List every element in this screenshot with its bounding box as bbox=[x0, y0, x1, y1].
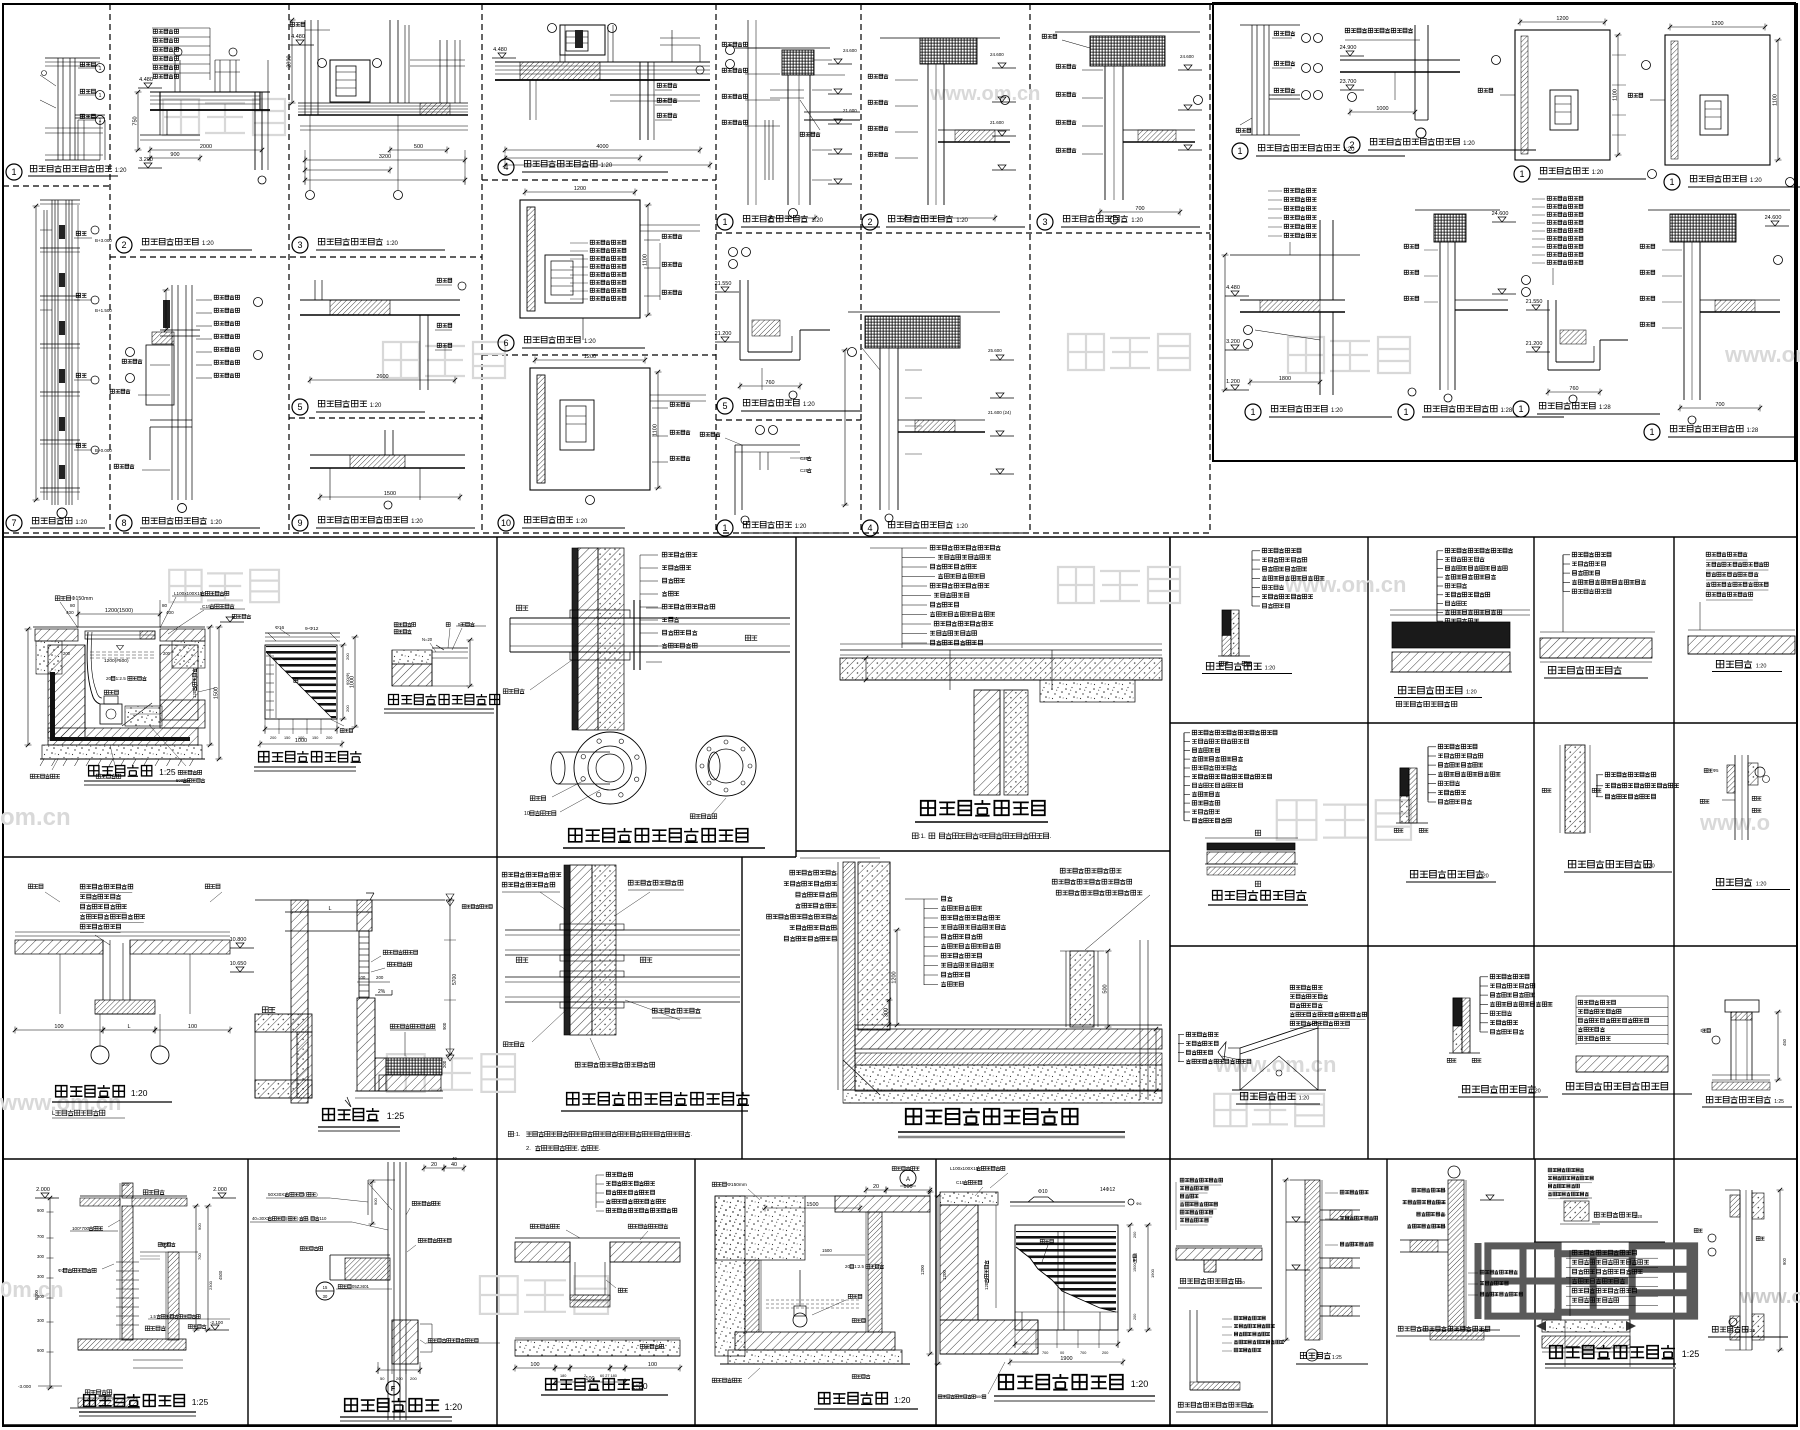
svg-text:4: 4 bbox=[867, 523, 872, 533]
svg-text:1800: 1800 bbox=[1279, 376, 1291, 382]
svg-text:1:20: 1:20 bbox=[1131, 218, 1143, 224]
svg-text:23.700: 23.700 bbox=[1340, 79, 1357, 85]
svg-text:1500(: 1500( bbox=[1133, 1262, 1137, 1272]
svg-text:24.600: 24.600 bbox=[1765, 215, 1782, 221]
svg-text:Φ150mm: Φ150mm bbox=[727, 1182, 747, 1188]
svg-text:1: 1 bbox=[99, 66, 102, 72]
svg-text:1: 1 bbox=[722, 523, 727, 533]
svg-text:40=30X3: 40=30X3 bbox=[252, 1216, 270, 1221]
svg-text:21.550: 21.550 bbox=[1526, 299, 1543, 305]
svg-text:1:20: 1:20 bbox=[1756, 882, 1767, 888]
svg-text:900: 900 bbox=[442, 1022, 447, 1030]
svg-text:50: 50 bbox=[380, 1376, 385, 1381]
svg-text:2600: 2600 bbox=[376, 374, 388, 380]
svg-text:24.600: 24.600 bbox=[990, 52, 1004, 57]
svg-text:1500: 1500 bbox=[384, 491, 396, 497]
svg-text:900: 900 bbox=[37, 1208, 45, 1213]
svg-text:120: 120 bbox=[984, 1282, 989, 1290]
svg-text:6: 6 bbox=[503, 338, 508, 348]
svg-text:www.om.cn: www.om.cn bbox=[929, 83, 1040, 105]
svg-text:1100: 1100 bbox=[1613, 89, 1619, 101]
svg-text:40: 40 bbox=[451, 1162, 457, 1168]
svg-text:3: 3 bbox=[1042, 217, 1047, 227]
svg-text:1200: 1200 bbox=[1556, 16, 1568, 22]
svg-text:1:20: 1:20 bbox=[115, 168, 127, 174]
svg-text:900: 900 bbox=[197, 1223, 202, 1230]
svg-text:1:20: 1:20 bbox=[811, 218, 823, 224]
svg-text:20: 20 bbox=[106, 676, 112, 681]
svg-text:1100: 1100 bbox=[653, 424, 659, 436]
svg-text:1:20: 1:20 bbox=[795, 524, 807, 530]
svg-text:1: 1 bbox=[1649, 427, 1654, 437]
svg-text:300: 300 bbox=[37, 1274, 45, 1279]
svg-text:2: 2 bbox=[867, 217, 872, 227]
svg-text:Φ16: Φ16 bbox=[275, 625, 284, 631]
svg-text:3200: 3200 bbox=[379, 154, 391, 160]
svg-text:1:20: 1:20 bbox=[445, 1402, 463, 1412]
svg-text:5000: 5000 bbox=[34, 1289, 39, 1300]
svg-text:B+1.500: B+1.500 bbox=[95, 308, 112, 313]
svg-text:1: 1 bbox=[1403, 407, 1408, 417]
svg-text:1:20: 1:20 bbox=[386, 241, 398, 247]
svg-text:10.800: 10.800 bbox=[230, 937, 247, 943]
svg-text:om.cn: om.cn bbox=[0, 804, 71, 831]
svg-text:1900: 1900 bbox=[1150, 1268, 1155, 1278]
svg-text:500: 500 bbox=[414, 144, 423, 150]
svg-text:80: 80 bbox=[162, 603, 168, 608]
svg-text:1100: 1100 bbox=[1773, 94, 1779, 106]
svg-text:A: A bbox=[906, 1177, 910, 1183]
svg-text:100*700: 100*700 bbox=[72, 1226, 90, 1231]
svg-text:1.200: 1.200 bbox=[1226, 379, 1240, 385]
svg-text:1: 1 bbox=[11, 167, 16, 177]
svg-text:30: 30 bbox=[323, 1294, 328, 1299]
svg-text:1500: 1500 bbox=[806, 1202, 818, 1208]
svg-text:3: 3 bbox=[297, 240, 302, 250]
svg-text:1:20: 1:20 bbox=[1331, 408, 1343, 414]
svg-text:2300: 2300 bbox=[208, 1280, 213, 1290]
svg-text:24.600: 24.600 bbox=[843, 48, 857, 53]
svg-text:1200: 1200 bbox=[584, 354, 596, 360]
svg-text:1500: 1500 bbox=[822, 1248, 832, 1253]
svg-text:N=20: N=20 bbox=[422, 637, 433, 642]
svg-text:1:20: 1:20 bbox=[1131, 1379, 1149, 1389]
svg-text:1:25: 1:25 bbox=[1746, 1328, 1756, 1334]
svg-text:8: 8 bbox=[121, 518, 126, 528]
svg-text:200: 200 bbox=[63, 651, 71, 656]
svg-text:1:20: 1:20 bbox=[601, 163, 613, 169]
svg-text:1000: 1000 bbox=[1376, 106, 1388, 112]
svg-text:1: 1 bbox=[722, 217, 727, 227]
svg-text:100: 100 bbox=[54, 1024, 63, 1030]
svg-text:1:20: 1:20 bbox=[1530, 1089, 1541, 1095]
svg-text:100: 100 bbox=[358, 975, 366, 980]
svg-text:1:20: 1:20 bbox=[370, 403, 382, 409]
svg-text:700: 700 bbox=[1080, 1351, 1086, 1355]
svg-text:1:20: 1:20 bbox=[75, 520, 87, 526]
svg-text:200: 200 bbox=[1102, 1351, 1108, 1355]
svg-text:100: 100 bbox=[648, 1362, 657, 1368]
svg-text:180: 180 bbox=[560, 1374, 566, 1378]
svg-text:2.: 2. bbox=[526, 1146, 531, 1152]
svg-text:1: 1 bbox=[1518, 404, 1523, 414]
svg-text:L: L bbox=[328, 906, 331, 912]
svg-text:C25: C25 bbox=[800, 468, 809, 473]
svg-text:4.480: 4.480 bbox=[291, 34, 305, 40]
svg-text:1:20: 1:20 bbox=[1246, 1404, 1255, 1409]
svg-text:21.600: 21.600 bbox=[990, 120, 1004, 125]
svg-text:700: 700 bbox=[197, 1253, 202, 1260]
svg-text:1:28: 1:28 bbox=[1747, 428, 1759, 434]
svg-text:700: 700 bbox=[1042, 1351, 1048, 1355]
svg-text:200: 200 bbox=[345, 705, 350, 712]
svg-text:150: 150 bbox=[284, 736, 290, 740]
svg-text:2%: 2% bbox=[378, 989, 386, 995]
svg-text:1200(1500): 1200(1500) bbox=[105, 608, 133, 614]
svg-text:500: 500 bbox=[1103, 984, 1109, 993]
svg-text:700: 700 bbox=[37, 1234, 45, 1239]
svg-text:1:20: 1:20 bbox=[1756, 664, 1767, 670]
svg-text:1:20: 1:20 bbox=[1634, 1214, 1643, 1219]
svg-text:10: 10 bbox=[524, 811, 530, 817]
svg-text:750: 750 bbox=[133, 116, 139, 125]
svg-text:21.600: 21.600 bbox=[843, 108, 857, 113]
svg-text:1:20: 1:20 bbox=[1592, 170, 1604, 176]
svg-text:1000: 1000 bbox=[295, 738, 307, 744]
svg-text:5700: 5700 bbox=[452, 974, 458, 985]
svg-text:L100x100X10: L100x100X10 bbox=[174, 591, 203, 596]
svg-text:4000: 4000 bbox=[596, 144, 608, 150]
svg-text:700: 700 bbox=[1135, 206, 1144, 212]
svg-text:1:28: 1:28 bbox=[1599, 405, 1611, 411]
svg-text:00: 00 bbox=[1060, 1351, 1064, 1355]
svg-text:4500: 4500 bbox=[218, 1270, 223, 1280]
svg-text:1:20: 1:20 bbox=[210, 520, 222, 526]
svg-text:20: 20 bbox=[873, 1184, 879, 1190]
svg-text:2900: 2900 bbox=[287, 55, 293, 67]
svg-text:1:20: 1:20 bbox=[894, 1395, 911, 1405]
svg-text:200: 200 bbox=[376, 975, 384, 980]
svg-text:-2.100: -2.100 bbox=[210, 1320, 223, 1325]
svg-text:9-Φ12: 9-Φ12 bbox=[305, 626, 319, 632]
svg-text:900: 900 bbox=[373, 1198, 378, 1205]
svg-text:200: 200 bbox=[1133, 1232, 1137, 1238]
svg-text:1: 1 bbox=[1519, 169, 1524, 179]
svg-text:900: 900 bbox=[37, 1348, 45, 1353]
svg-text:1:20: 1:20 bbox=[1480, 1328, 1489, 1333]
svg-text:120: 120 bbox=[192, 690, 197, 698]
svg-text:900: 900 bbox=[1782, 1257, 1787, 1265]
svg-text:B: B bbox=[979, 833, 983, 840]
svg-text:40: 40 bbox=[452, 1156, 457, 1161]
svg-text:1.5: 1.5 bbox=[150, 1314, 156, 1319]
svg-text:www.om.cn: www.om.cn bbox=[1724, 342, 1800, 367]
svg-text:1200: 1200 bbox=[892, 971, 898, 983]
svg-text:300: 300 bbox=[37, 1318, 45, 1323]
svg-text:760: 760 bbox=[1569, 386, 1578, 392]
svg-text:1:20: 1:20 bbox=[1478, 874, 1489, 880]
svg-text:1:28: 1:28 bbox=[1501, 408, 1513, 414]
svg-text:3.200: 3.200 bbox=[1226, 339, 1240, 345]
svg-text:0m.cn: 0m.cn bbox=[0, 1277, 64, 1302]
svg-text:24.900: 24.900 bbox=[1340, 45, 1357, 51]
svg-text:1200(#500): 1200(#500) bbox=[104, 658, 129, 664]
svg-text:05ZJ401: 05ZJ401 bbox=[352, 1284, 370, 1289]
svg-text:1100: 1100 bbox=[643, 254, 649, 266]
svg-text:100: 100 bbox=[188, 1024, 197, 1030]
svg-text:10: 10 bbox=[501, 518, 511, 528]
svg-text:900: 900 bbox=[170, 152, 179, 158]
svg-text:B+0.000: B+0.000 bbox=[95, 448, 112, 453]
svg-text:4.480: 4.480 bbox=[139, 77, 153, 83]
svg-text:200: 200 bbox=[345, 653, 350, 660]
svg-text:7: 7 bbox=[11, 518, 16, 528]
svg-text:1000: 1000 bbox=[350, 676, 356, 688]
svg-text:1:20: 1:20 bbox=[202, 241, 214, 247]
svg-text:24.600: 24.600 bbox=[1492, 211, 1509, 217]
svg-text:200: 200 bbox=[442, 1060, 447, 1068]
svg-text:3.200: 3.200 bbox=[139, 157, 153, 163]
svg-text:1: 1 bbox=[99, 118, 102, 124]
svg-text::1.: :1. bbox=[919, 833, 926, 840]
svg-text:300: 300 bbox=[884, 1008, 890, 1017]
svg-text:200: 200 bbox=[326, 736, 332, 740]
svg-text:1:20: 1:20 bbox=[1299, 1096, 1310, 1102]
svg-text:15: 15 bbox=[323, 1285, 328, 1290]
svg-text:150: 150 bbox=[312, 736, 318, 740]
svg-text:1:20: 1:20 bbox=[956, 524, 968, 530]
svg-text:50X30X3: 50X30X3 bbox=[268, 1192, 287, 1197]
svg-text:4.480: 4.480 bbox=[493, 47, 507, 53]
svg-text:Φ150mm: Φ150mm bbox=[71, 596, 92, 602]
svg-text:110: 110 bbox=[320, 1216, 327, 1221]
svg-text:10.650: 10.650 bbox=[230, 961, 247, 967]
svg-text:1:20: 1:20 bbox=[803, 402, 815, 408]
svg-text:1: 1 bbox=[1669, 177, 1674, 187]
svg-text:Φ10: Φ10 bbox=[1038, 1189, 1048, 1195]
svg-text:300: 300 bbox=[37, 1254, 45, 1259]
svg-text:200: 200 bbox=[1022, 1351, 1028, 1355]
svg-text:1:25: 1:25 bbox=[387, 1111, 405, 1121]
svg-text:1200: 1200 bbox=[574, 186, 586, 192]
svg-text:1:20: 1:20 bbox=[1236, 1280, 1245, 1285]
svg-text:Φ6: Φ6 bbox=[1136, 1201, 1142, 1206]
svg-text:www.o: www.o bbox=[1699, 810, 1770, 835]
svg-text:14Φ12: 14Φ12 bbox=[1100, 1187, 1115, 1193]
svg-text:1:25: 1:25 bbox=[1682, 1349, 1700, 1359]
svg-text:1:20: 1:20 bbox=[584, 339, 596, 345]
svg-text:2.000: 2.000 bbox=[213, 1187, 227, 1193]
svg-text:80: 80 bbox=[70, 603, 76, 608]
svg-text:400: 400 bbox=[166, 610, 174, 615]
svg-text:200: 200 bbox=[396, 1376, 403, 1381]
svg-text:760: 760 bbox=[765, 380, 774, 386]
svg-text:1:25: 1:25 bbox=[192, 1397, 209, 1407]
svg-text:1:2.5: 1:2.5 bbox=[116, 676, 127, 681]
svg-text:4.480: 4.480 bbox=[1226, 285, 1240, 291]
svg-text:200: 200 bbox=[270, 736, 276, 740]
svg-text:2: 2 bbox=[121, 240, 126, 250]
svg-text:,: , bbox=[308, 1216, 309, 1221]
svg-text:20: 20 bbox=[431, 1162, 437, 1168]
svg-text:200: 200 bbox=[163, 651, 171, 656]
svg-text:1:20: 1:20 bbox=[956, 218, 968, 224]
svg-text:5: 5 bbox=[297, 402, 302, 412]
svg-text:1:20: 1:20 bbox=[576, 519, 588, 525]
svg-text:1:25: 1:25 bbox=[1774, 1099, 1784, 1105]
svg-text:9: 9 bbox=[297, 518, 302, 528]
svg-text:400: 400 bbox=[66, 610, 74, 615]
svg-text:700: 700 bbox=[1715, 402, 1724, 408]
svg-text:1:20: 1:20 bbox=[1644, 864, 1655, 870]
svg-text:B+3.000: B+3.000 bbox=[95, 238, 112, 243]
svg-text:20: 20 bbox=[845, 1264, 850, 1269]
svg-text:C25: C25 bbox=[800, 456, 809, 461]
svg-text:1: 1 bbox=[99, 93, 102, 99]
svg-text:21.550: 21.550 bbox=[715, 281, 732, 287]
svg-text:4: 4 bbox=[503, 162, 508, 172]
svg-text:21.600 (24): 21.600 (24) bbox=[988, 410, 1012, 415]
svg-text:200: 200 bbox=[1133, 1314, 1137, 1320]
svg-text:60 27 180: 60 27 180 bbox=[600, 1374, 617, 1378]
svg-text:-3.000: -3.000 bbox=[18, 1384, 31, 1389]
svg-text:21.200: 21.200 bbox=[1526, 341, 1543, 347]
svg-text:L100x100X10: L100x100X10 bbox=[950, 1166, 979, 1171]
svg-text:1: 1 bbox=[1250, 407, 1255, 417]
svg-text:1200: 1200 bbox=[920, 1264, 925, 1275]
svg-text:2: 2 bbox=[1349, 140, 1354, 150]
svg-text:450: 450 bbox=[1782, 1038, 1787, 1046]
svg-text:1:20: 1:20 bbox=[631, 1381, 648, 1391]
svg-text:1:20: 1:20 bbox=[1463, 141, 1475, 147]
svg-text:1500: 1500 bbox=[214, 687, 220, 699]
svg-text:1:20: 1:20 bbox=[1750, 178, 1762, 184]
svg-text:1:20: 1:20 bbox=[411, 519, 423, 525]
svg-text:F: F bbox=[391, 1386, 396, 1393]
svg-text:1:20: 1:20 bbox=[131, 1088, 148, 1098]
svg-text:24.600: 24.600 bbox=[1180, 54, 1194, 59]
svg-text:L: L bbox=[127, 1024, 130, 1030]
svg-text:2000: 2000 bbox=[200, 144, 212, 150]
svg-text:Φ5: Φ5 bbox=[1713, 768, 1719, 773]
svg-text:100: 100 bbox=[530, 1362, 539, 1368]
svg-text:5: 5 bbox=[722, 401, 727, 411]
svg-text:200: 200 bbox=[410, 1376, 417, 1381]
svg-text:25.600: 25.600 bbox=[988, 348, 1002, 353]
svg-text:1:2.5: 1:2.5 bbox=[854, 1264, 864, 1269]
svg-text:21.200: 21.200 bbox=[715, 331, 732, 337]
svg-text:1:20: 1:20 bbox=[1466, 690, 1477, 696]
svg-text:1:20: 1:20 bbox=[1265, 666, 1276, 672]
svg-text:1900: 1900 bbox=[1060, 1356, 1072, 1362]
svg-text:1: 1 bbox=[1237, 146, 1242, 156]
svg-text:www.om.cn: www.om.cn bbox=[1739, 1286, 1800, 1308]
svg-text:100: 100 bbox=[903, 1184, 912, 1190]
svg-text:C15: C15 bbox=[956, 1180, 965, 1185]
svg-text:1:25: 1:25 bbox=[1332, 1355, 1342, 1361]
svg-text:.: . bbox=[1050, 833, 1052, 840]
svg-text:1:25: 1:25 bbox=[159, 767, 176, 777]
svg-text:1200: 1200 bbox=[1711, 21, 1723, 27]
svg-text:2.000: 2.000 bbox=[36, 1187, 50, 1193]
svg-text::1.: :1. bbox=[514, 1132, 521, 1138]
